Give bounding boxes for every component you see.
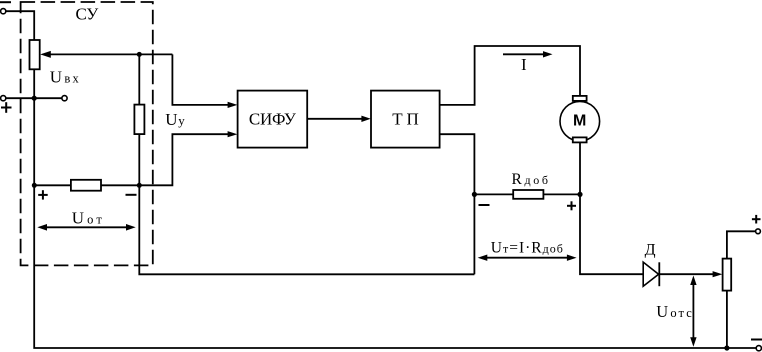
junction Rдоб left — [472, 192, 477, 197]
wire from Uот minus node to СИФУ lower input — [139, 134, 230, 185]
junction P2 bottom at bus — [724, 345, 729, 350]
wire from top terminal to potentiometer P1 top — [6, 11, 34, 40]
junction wiper line / R2 — [137, 52, 142, 57]
wire Uот minus node down and right to Uт minus node — [139, 185, 474, 274]
junction Rдоб right — [577, 192, 582, 197]
resistor R2 body — [134, 105, 144, 135]
plus sign at input bottom terminal — [1, 102, 12, 113]
resistor Rдоб body — [513, 190, 543, 199]
potentiometer P1 body — [30, 40, 40, 69]
diode Д triangle — [643, 262, 658, 286]
wire P1 bottom node down to R3 left node — [33, 98, 35, 185]
wire Uот plus node down to bottom bus — [34, 185, 756, 348]
double arrow Uотс — [692, 280, 694, 343]
minus sign at input top terminal — [0, 1, 11, 3]
minus sign at R3 right — [126, 194, 137, 196]
resistor R3 body — [71, 180, 101, 191]
terminal: input bottom — [1, 96, 6, 101]
svg-text:Uу: Uу — [165, 110, 185, 129]
svg-text:М: М — [573, 113, 586, 130]
potentiometer P2 body — [723, 259, 732, 291]
arrow I (current) — [503, 53, 546, 55]
wire Rдоб minus node down to lower connector — [473, 194, 475, 274]
motor brush top — [573, 96, 587, 101]
block СИФУ — [238, 91, 308, 148]
junction right of R3 — [137, 183, 142, 188]
svg-text:СИФУ: СИФУ — [249, 110, 297, 129]
block ТП — [371, 91, 440, 148]
plus sign at Rдоб right — [567, 201, 576, 210]
arrowhead into ТП — [361, 116, 370, 122]
motor brush bottom — [573, 137, 587, 142]
resistor Rдоб wire — [474, 193, 580, 195]
svg-text:ТП: ТП — [392, 110, 419, 129]
svg-text:Rдоб: Rдоб — [512, 171, 549, 188]
svg-text:Uот: Uот — [72, 208, 103, 227]
wire P2 top to output plus terminal — [727, 231, 756, 258]
double arrow Uт — [482, 257, 573, 259]
arrowhead into СИФУ upper input — [228, 102, 238, 108]
minus sign at output bottom terminal — [751, 339, 762, 341]
wire motor bottom to Rдоб plus node — [579, 142, 581, 194]
svg-text:Uотс: Uотс — [656, 302, 692, 321]
terminal: output bottom — [756, 346, 761, 351]
motor M1 circle — [560, 101, 600, 141]
junction at P1 bottom — [32, 96, 37, 101]
diode Д cathode bar — [658, 262, 660, 286]
wire to СИФУ upper input — [172, 54, 230, 105]
wiper arrow of P1 — [40, 51, 51, 58]
svg-text:I: I — [521, 55, 527, 74]
junction left of R3 — [32, 183, 37, 188]
arrowhead into СИФУ lower input — [228, 131, 238, 137]
wire Rдоб plus node down and right to diode — [580, 194, 643, 274]
svg-text:Uвх: Uвх — [50, 68, 80, 87]
plus sign at R3 left — [38, 190, 48, 199]
wire ТП lower output down to Rдоб minus node — [440, 134, 475, 194]
minus sign at Rдоб left — [479, 204, 490, 206]
resistor R2 wire — [138, 54, 140, 185]
svg-text:СУ: СУ — [76, 4, 100, 23]
wire СИФУ to ТП — [307, 118, 363, 120]
terminal Uвх open end — [62, 96, 67, 101]
terminal: output plus — [756, 229, 761, 234]
double arrow Uот — [41, 226, 132, 228]
terminal: input top — [1, 9, 6, 14]
wire P2 bottom to bottom bus — [726, 291, 728, 348]
svg-text:Uт=I·Rдоб: Uт=I·Rдоб — [491, 239, 563, 256]
wire ТП upper output to motor — [440, 46, 580, 105]
svg-text:Д: Д — [645, 241, 656, 258]
resistor R3 wire (Uот line) — [34, 184, 139, 186]
arrowhead into P2 (wiper) — [713, 271, 723, 277]
dashed box СУ — [21, 2, 153, 265]
wire diode to potentiometer P2 — [659, 273, 715, 275]
plus sign at output plus terminal — [752, 215, 761, 224]
wire input bottom — [6, 97, 62, 99]
wire P1 bottom to input bottom line — [33, 69, 35, 98]
